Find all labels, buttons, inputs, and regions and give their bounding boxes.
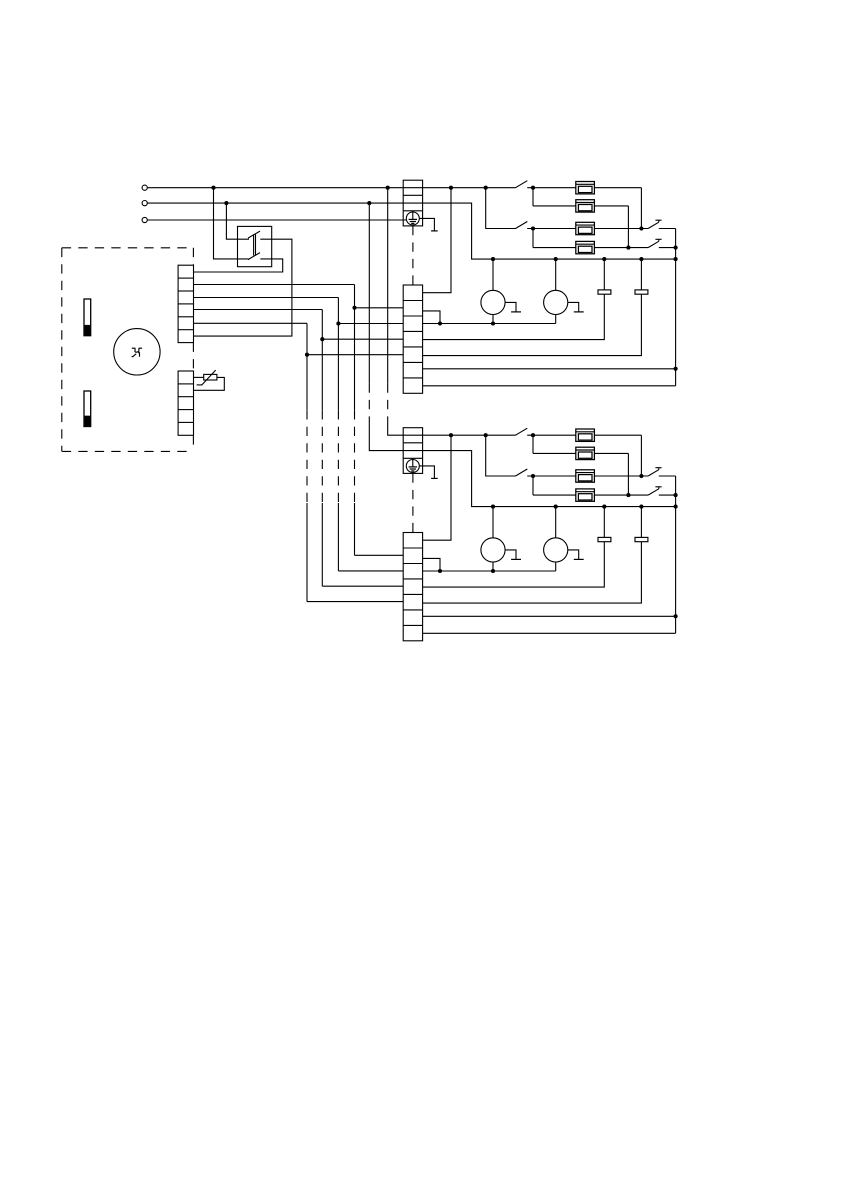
wire X1 cell 2 harness [194,284,355,286]
timer motor M symbol [114,329,160,375]
heating element E2 [576,200,595,212]
motor M3 [481,538,505,562]
thermistor RT1 [204,374,217,380]
chassis ground tick [431,230,438,232]
heating element E5 [576,429,595,441]
contactor K1 actuator link [253,234,255,255]
capacitor C1 [598,290,611,294]
supply terminal L2 [142,201,147,206]
wire harness 4 to TB4 cell 5 [307,601,403,603]
wire tap to TB2 cell 2 [355,307,404,309]
wire L2 drop to contactor [226,203,249,239]
junction node motor 1 return [491,569,495,573]
bus node motor 1 [491,257,495,261]
earth link (dashed) TB3 to TB4 [412,473,414,532]
junction node motor 1 return [491,321,495,325]
wire strip cell 7 to right rail [423,385,676,387]
protective-earth symbol in TB3 [406,460,419,473]
earth link (dashed) TB1 to TB2 [412,226,414,285]
node L1 to lower unit [386,186,390,190]
chassis ground tick [431,477,438,479]
indicator bar 2 [84,391,91,427]
terminal strip TB2 [403,285,422,393]
motor M2 ground mark [568,302,579,312]
capacitor C2 bottom lead to strip cell 5 [423,294,642,355]
wire row B drop [532,188,534,206]
terminal strip TB4 [403,533,422,641]
wire E5 output [594,434,641,436]
capacitor C3 top lead [603,507,605,538]
wire S3 to element E5 [527,434,576,436]
junction node right rail row D [674,493,678,497]
motor M3 ground mark [505,550,516,560]
wire E2 output [594,205,628,207]
protective-earth symbol in TB1 [406,212,419,225]
wire L1 drop to contactor [214,188,249,259]
motor M4 [544,538,568,562]
wire phase L2 [147,202,403,204]
feed wire L1 to lower unit TB3 cell 1 [387,188,389,384]
node L1 to contactor [211,186,215,190]
wire phase L1 [147,187,403,189]
node tap to row C [484,433,488,437]
node harness 3 tap [320,337,324,341]
node harness 4 tap [305,353,309,357]
control module enclosure (dashed) [62,247,194,249]
motor M3 return lead [492,562,494,571]
switch S3 contact node [531,433,535,437]
motor M1 [481,290,505,314]
motor M2 [544,290,568,314]
junction node cell2/cell3 link [438,569,442,573]
wire harness 2 to TB4 cell 3 [338,570,403,572]
wire harness 1 to TB4 cell 2 [355,554,404,556]
terminal block TB1 [403,180,422,226]
wire E1 drop to row C [640,188,642,229]
wire to element E2 [533,205,576,207]
heating element E6 [576,447,595,459]
switch S4 blade [516,469,528,476]
wire strip cell 6 to right rail [423,368,676,370]
motor M2 supply lead [555,259,557,290]
capacitor C3 bottom lead to strip cell 4 [423,542,605,587]
thermal cutout F3 [648,470,659,476]
neutral bus wire from TB1 [403,203,675,259]
terminal block TB3 [403,428,422,474]
wire strip cell 3 motor returns [423,323,556,325]
wire F1 output [659,228,676,230]
wire S4 to element E7 [527,475,576,477]
capacitor C4 bottom lead to strip cell 5 [423,542,642,603]
capacitor C1 top lead [603,259,605,290]
bus node capacitor 1 [602,257,606,261]
right rail vertical wire [675,229,677,386]
wire E2 drop to row D [627,206,629,248]
heating element E3 [576,222,595,234]
motor M2 return lead [555,315,557,324]
capacitor C4 top lead [640,507,642,538]
junction node right rail strip cell 6 [674,367,678,371]
harness vertical 4 [306,323,308,410]
node L2 to lower unit [367,201,371,205]
bus node capacitor 2 [639,505,643,509]
node harness 1 tap [352,306,356,310]
wire strip cell 1 feed [423,435,451,540]
wire to element E8 [533,494,576,496]
wire S1 to element E1 [527,187,576,189]
wire F2 output [659,247,676,249]
wire contactor lower contact to X1 cell 1 [194,259,283,272]
node tap to strip cell 1 [449,433,453,437]
bus node motor 2 [554,257,558,261]
junction node row D [626,493,630,497]
motor M3 supply lead [492,507,494,538]
motor M4 ground mark [568,550,579,560]
wire E8 to thermal cutout F4 [594,494,648,496]
switch S2 blade [516,222,528,229]
wire tap to TB2 cell 5 [307,354,403,356]
wire tap to TB2 cell 3 [338,323,403,325]
wire F4 output [659,494,676,496]
wire harness 3 to TB4 cell 4 [322,585,403,587]
bus node capacitor 2 [639,257,643,261]
wire row B drop [532,435,534,453]
wire row D drop [532,229,534,248]
wire to element E4 [533,247,576,249]
capacitor C4 [635,537,648,541]
earth lead wire from TB1 [419,218,434,231]
switch S2 contact node [531,226,535,230]
junction node row D [626,246,630,250]
bus node motor 2 [554,505,558,509]
wire strip cell 2 link [423,558,440,571]
wire strip cell 1 feed [423,188,451,293]
heating element E4 [576,241,595,253]
wire tap to TB2 cell 4 [322,338,403,340]
heating element E7 [576,470,595,482]
node L2 to contactor [224,201,228,205]
capacitor C1 bottom lead to strip cell 4 [423,294,605,339]
contactor K1 upper blade [248,231,260,238]
right rail vertical wire [675,476,677,633]
switch S4 contact node [531,474,535,478]
contactor K1 outline [238,226,272,266]
wire X1 cell 3 harness [194,297,339,299]
wire E6 drop to row D [627,453,629,495]
heating element E8 [576,489,595,501]
harness vertical 2 [337,298,339,411]
wire row C feed [486,188,516,229]
wire E3 to thermal cutout F1 [594,228,648,230]
indicator bar 1 [84,299,91,336]
contactor K1 lower blade [248,253,260,260]
wire strip cell 7 to right rail [423,632,676,634]
wire thermistor return to X2 cell 2 [194,377,225,390]
wire E6 output [594,452,628,454]
motor M1 ground mark [505,302,516,312]
wire strip cell 6 to right rail [423,615,676,617]
neutral bus wire from TB3 [403,451,675,507]
heating element E1 [576,182,595,194]
capacitor C2 top lead [640,259,642,290]
node harness 2 tap [336,321,340,325]
capacitor C3 [598,537,611,541]
switch S1 blade [516,181,528,188]
junction node right rail bus [674,257,678,261]
wire X1 cell 4 harness [194,309,323,311]
wire S2 to element E3 [527,228,576,230]
motor M4 supply lead [555,507,557,538]
wire contactor upper contact to X1 cell 6 [194,239,292,336]
junction node right rail bus [674,505,678,509]
thermal cutout F1 [648,222,659,228]
wire row D drop [532,476,534,495]
motor M1 return lead [492,315,494,324]
bus node capacitor 1 [602,505,606,509]
wire earth conductor [147,219,406,221]
wire F3 output [659,475,676,477]
wire strip cell 3 motor returns [423,570,556,572]
thermal cutout F4 [648,489,659,495]
harness vertical 3 [321,310,323,411]
capacitor C2 [635,290,648,294]
wire to element E6 [533,452,576,454]
module terminal strip X2 [178,371,193,435]
wire E5 drop to row C [640,435,642,476]
junction node row C [639,226,643,230]
switch S1 contact node [531,186,535,190]
module terminal strip X1 [178,265,193,342]
bus node motor 1 [491,505,495,509]
switch S3 blade [516,428,528,435]
supply terminal earth [142,217,147,222]
junction node right rail strip cell 6 [674,614,678,618]
wire E4 to thermal cutout F2 [594,247,648,249]
earth lead wire from TB3 [419,466,434,479]
supply terminal L1 [142,185,147,190]
motor M4 return lead [555,562,557,571]
feed wire L2 to lower unit TB3 cell 2 [368,203,370,383]
wire row-A TB1 to switch S1 [403,187,516,189]
node tap to row C [484,186,488,190]
wire E7 to thermal cutout F3 [594,475,648,477]
harness vertical 1 [354,285,356,411]
wire X1 cell 5 harness [194,322,308,324]
wire row-A TB3 to switch S3 [403,434,516,436]
wire strip cell 2 link [423,311,440,324]
junction node row C [639,474,643,478]
node tap to strip cell 1 [449,186,453,190]
junction node cell2/cell3 link [438,321,442,325]
wire row C feed [486,435,516,476]
junction node right rail row D [674,246,678,250]
motor M1 supply lead [492,259,494,290]
wire E1 output [594,187,641,189]
wire X2 cell 1 to thermistor [194,376,204,378]
thermal cutout F2 [648,241,659,247]
